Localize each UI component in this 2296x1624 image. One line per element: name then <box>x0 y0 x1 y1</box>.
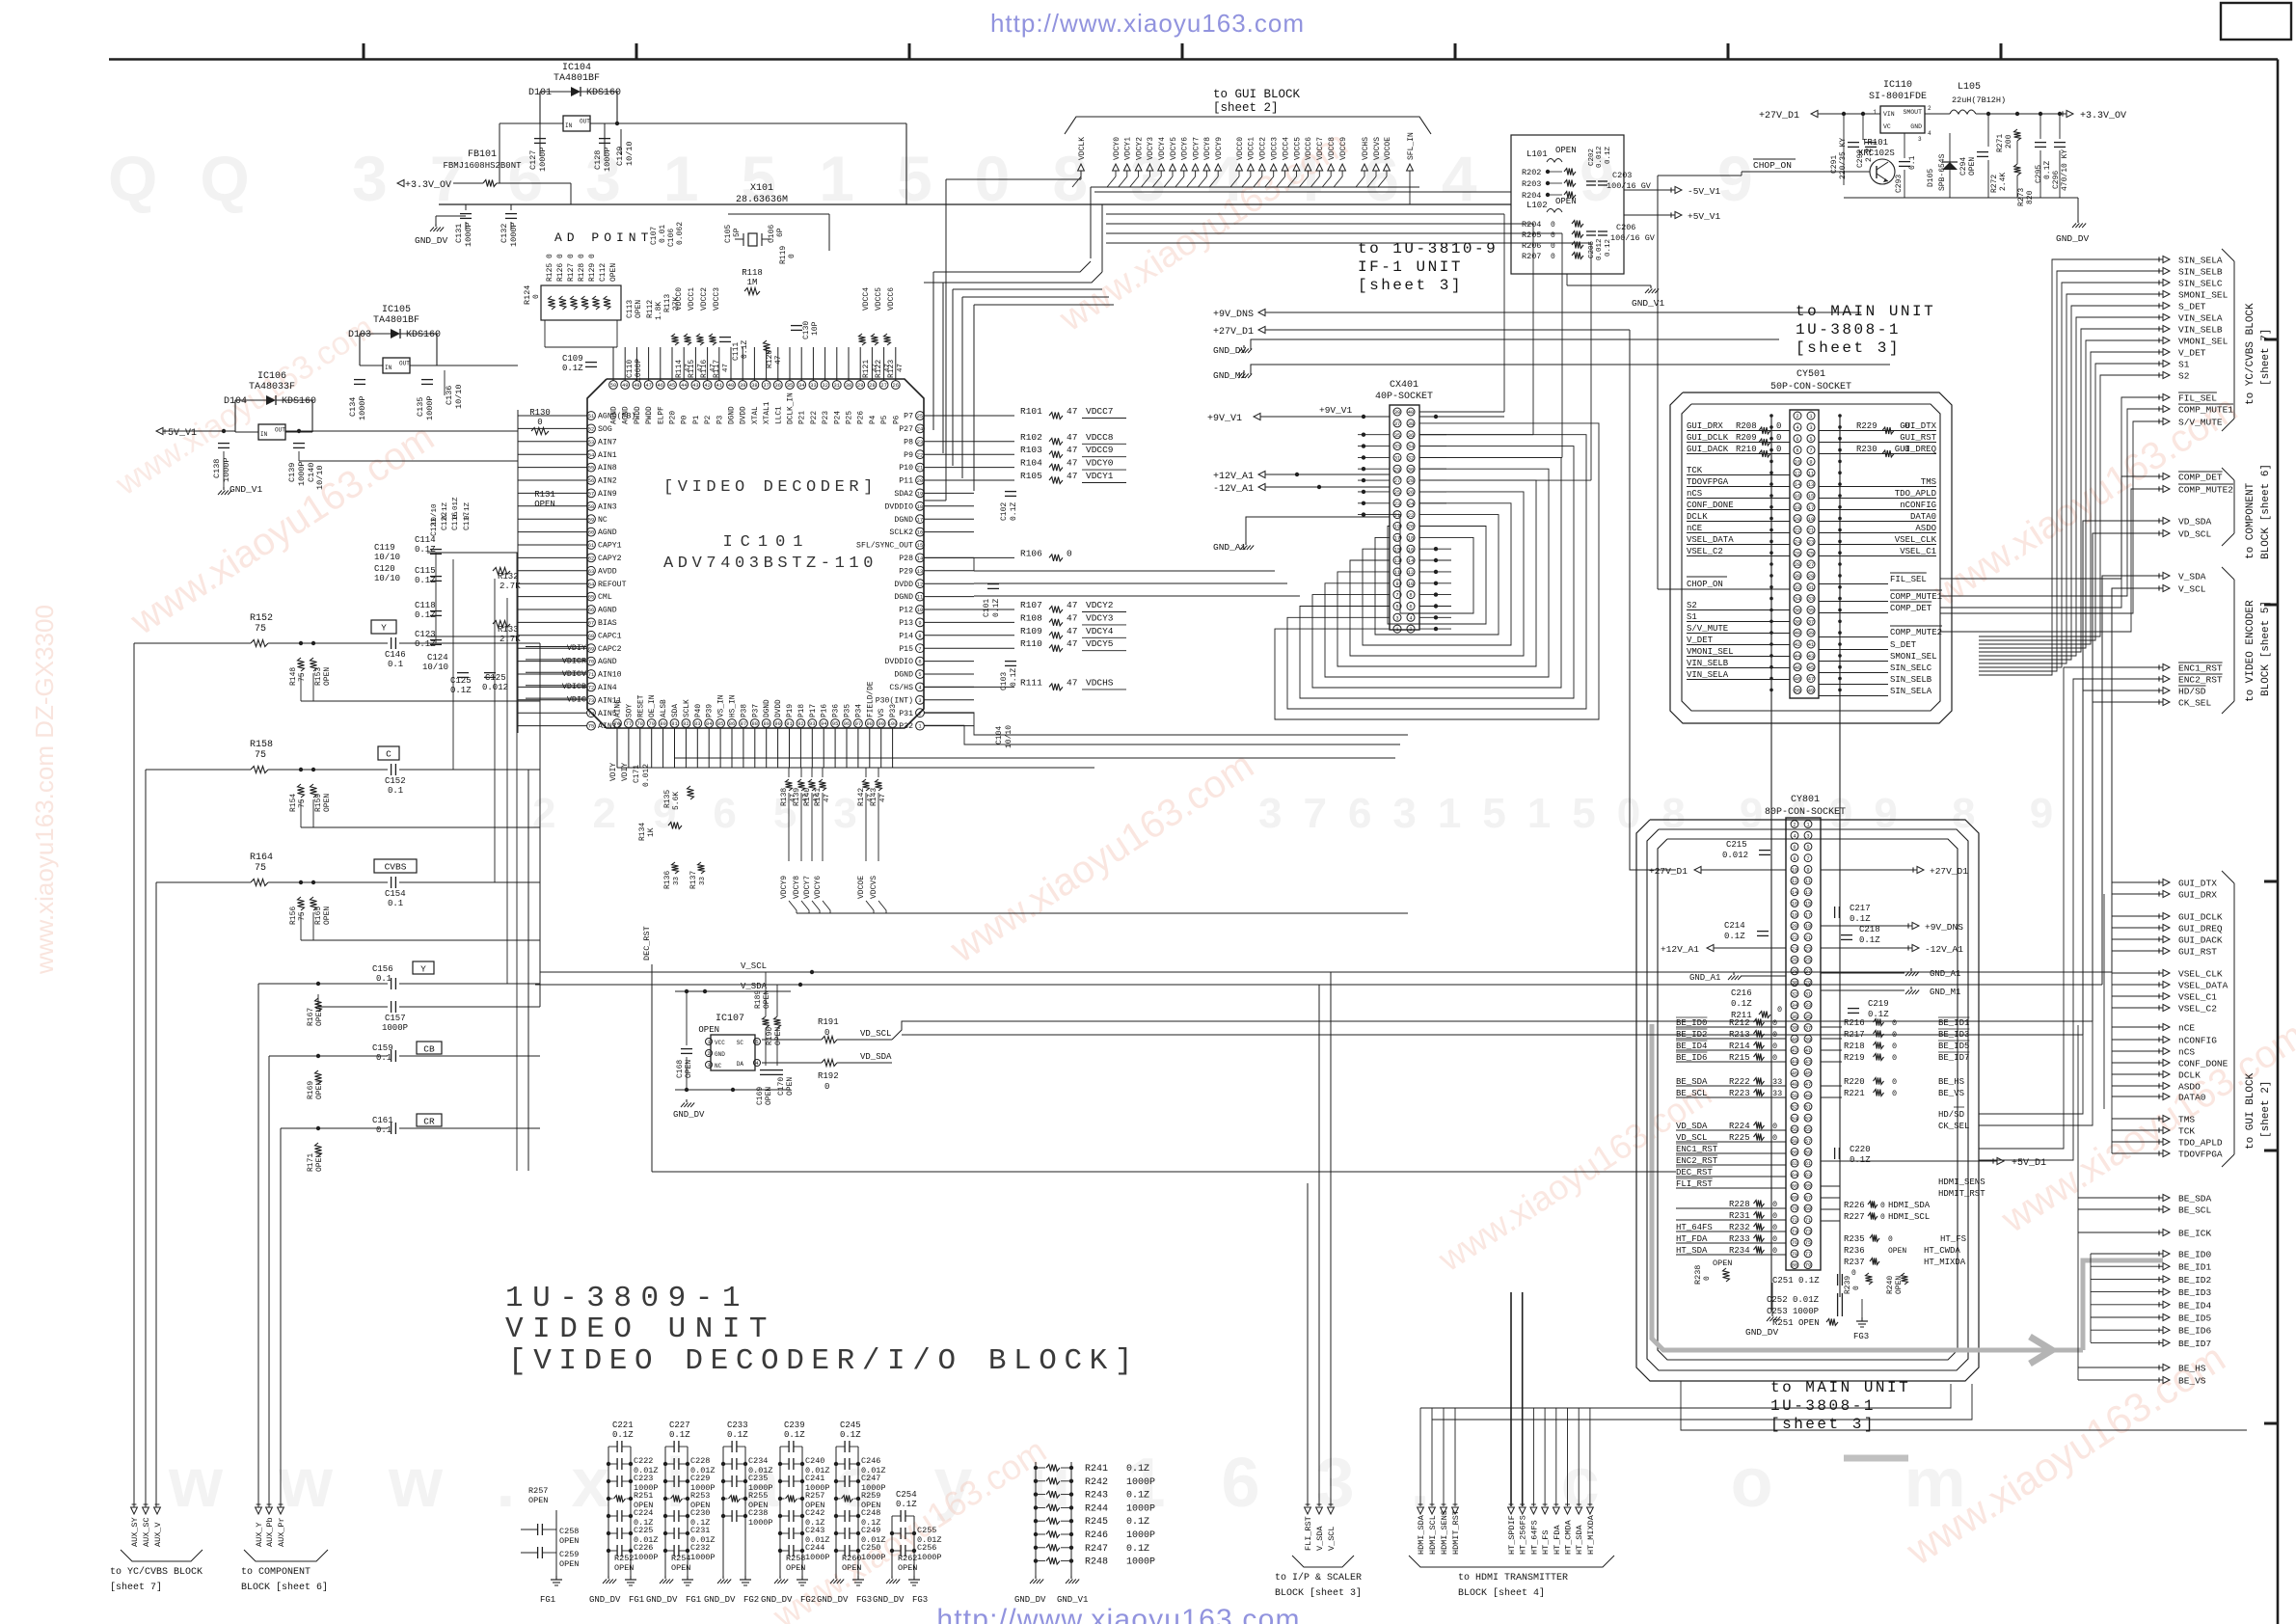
svg-text:R203: R203 <box>1522 179 1541 189</box>
svg-text:IC105: IC105 <box>382 305 411 315</box>
svg-text:SI-8001FDE: SI-8001FDE <box>1869 92 1927 102</box>
svg-text:0: 0 <box>1551 242 1555 251</box>
svg-text:VDCHS: VDCHS <box>1086 677 1114 688</box>
svg-text:66: 66 <box>1792 1184 1797 1190</box>
svg-text:C239: C239 <box>784 1421 805 1430</box>
svg-text:5: 5 <box>1395 605 1398 610</box>
svg-text:R129 0: R129 0 <box>588 254 597 282</box>
svg-text:19: 19 <box>1394 525 1400 530</box>
svg-text:AUX_V: AUX_V <box>153 1522 163 1547</box>
svg-text:P17: P17 <box>810 704 818 717</box>
svg-text:47: 47 <box>1805 1082 1811 1088</box>
svg-text:3: 3 <box>1918 136 1922 143</box>
svg-text:15: 15 <box>917 543 923 549</box>
IC101 bottom pin row pins 76..100 <box>613 719 622 728</box>
svg-text:C205: C205 <box>1588 240 1596 258</box>
svg-text:P18: P18 <box>798 704 806 717</box>
svg-text:1000P: 1000P <box>690 1553 716 1562</box>
svg-text:BE_HS: BE_HS <box>2178 1364 2206 1374</box>
svg-text:P7: P7 <box>904 413 913 421</box>
svg-text:R123: R123 <box>887 360 896 378</box>
svg-text:R117: R117 <box>713 360 721 378</box>
svg-text:GND_DV: GND_DV <box>817 1595 849 1605</box>
svg-text:0.01Z: 0.01Z <box>452 497 460 519</box>
svg-text:1000P: 1000P <box>1126 1477 1155 1488</box>
svg-text:14: 14 <box>1408 558 1414 564</box>
svg-text:VDCY0: VDCY0 <box>1113 137 1121 160</box>
power arrow -5V_V1 <box>1675 186 1682 193</box>
svg-text:V_SCL: V_SCL <box>2178 584 2206 595</box>
svg-text:R251 OPEN: R251 OPEN <box>1772 1318 1820 1328</box>
svg-text:C161: C161 <box>372 1116 393 1125</box>
svg-text:CVBS: CVBS <box>385 862 407 873</box>
svg-text:C107: C107 <box>650 227 659 245</box>
svg-text:0.1: 0.1 <box>376 1125 392 1135</box>
capacitor C101 0.1Z <box>987 583 999 585</box>
svg-text:FB101: FB101 <box>468 149 497 160</box>
svg-text:VD_SDA: VD_SDA <box>1676 1122 1708 1131</box>
svg-text:VDIY: VDIY <box>621 763 630 781</box>
svg-text:33: 33 <box>1805 1003 1811 1009</box>
svg-text:0.1Z: 0.1Z <box>1868 1010 1889 1019</box>
svg-text:90: 90 <box>774 721 780 727</box>
svg-text:R236: R236 <box>1844 1246 1865 1256</box>
svg-text:4: 4 <box>1409 615 1412 621</box>
svg-text:AIN4: AIN4 <box>598 684 617 692</box>
svg-text:AIN2: AIN2 <box>598 477 617 486</box>
svg-text:to MAIN UNIT: to MAIN UNIT <box>1770 1379 1910 1396</box>
svg-text:92: 92 <box>797 721 803 727</box>
svg-text:C241: C241 <box>805 1474 824 1483</box>
svg-text:R233: R233 <box>1729 1234 1750 1244</box>
ground GND_DV at CY801 <box>1771 1313 1773 1316</box>
svg-text:GND_DV: GND_DV <box>589 1595 621 1605</box>
svg-text:1000P: 1000P <box>358 395 367 420</box>
svg-text:53: 53 <box>1805 1116 1811 1122</box>
svg-text:VDICR: VDICR <box>562 656 586 665</box>
svg-text:HDMIT_RST: HDMIT_RST <box>1938 1189 1985 1199</box>
svg-text:25: 25 <box>1808 551 1814 556</box>
svg-text:CAPY2: CAPY2 <box>598 555 622 563</box>
svg-text:16: 16 <box>1408 547 1414 553</box>
svg-text:19: 19 <box>1805 924 1811 930</box>
svg-text:VSEL_C1: VSEL_C1 <box>1900 547 1936 556</box>
svg-text:25: 25 <box>917 414 923 420</box>
svg-text:V_DET: V_DET <box>2178 348 2206 359</box>
svg-text:39: 39 <box>1808 631 1814 636</box>
svg-text:VDCY5: VDCY5 <box>1086 638 1114 649</box>
svg-text:47: 47 <box>1067 626 1077 636</box>
svg-text:[sheet 3]: [sheet 3] <box>1358 277 1463 294</box>
ENC CK HD feed wires right of CY801 <box>1979 667 2159 1149</box>
svg-text:R164: R164 <box>250 853 273 863</box>
svg-text:COMP_MUTE2: COMP_MUTE2 <box>2178 485 2233 496</box>
svg-text:53: 53 <box>588 440 594 446</box>
svg-text:www.xiaoyu163.com DZ-GX3300: www.xiaoyu163.com DZ-GX3300 <box>30 605 59 975</box>
bottom bus under IC101 <box>617 767 1094 769</box>
wire +3.3V rail horizontal <box>439 203 1511 205</box>
svg-text:24: 24 <box>1795 540 1800 546</box>
svg-text:GND_DV: GND_DV <box>1213 345 1247 356</box>
svg-text:31: 31 <box>834 383 840 389</box>
svg-text:R119: R119 <box>779 246 788 264</box>
svg-text:P24: P24 <box>834 411 842 424</box>
svg-text:R140: R140 <box>803 788 812 806</box>
svg-text:DGND: DGND <box>894 516 913 525</box>
svg-text:C250: C250 <box>861 1543 880 1553</box>
svg-text:BE_ID5: BE_ID5 <box>1938 1042 1969 1051</box>
svg-text:5: 5 <box>755 1040 758 1045</box>
svg-text:VIN_SELA: VIN_SELA <box>1687 670 1729 680</box>
svg-text:BE_ID3: BE_ID3 <box>2178 1287 2212 1298</box>
svg-text:C111: C111 <box>732 342 741 361</box>
svg-text:75: 75 <box>1805 1240 1811 1246</box>
svg-text:P25: P25 <box>847 411 854 424</box>
V_SCL V_SDA to right edge <box>2112 588 2159 972</box>
svg-text:R169: R169 <box>307 1081 315 1099</box>
svg-text:SIN_SELA: SIN_SELA <box>1890 687 1932 696</box>
svg-text:0.1Z: 0.1Z <box>1126 1517 1149 1528</box>
svg-text:R115: R115 <box>688 360 696 378</box>
svg-text:R114: R114 <box>675 360 684 378</box>
funnel to COMPONENT <box>244 1550 328 1561</box>
svg-text:0.01: 0.01 <box>659 225 667 243</box>
svg-text:2.4K: 2.4K <box>1999 173 2008 191</box>
bottom group FLI_RST V_SDA V_SCL <box>1305 1507 1311 1514</box>
svg-text:0.1Z: 0.1Z <box>1126 1464 1149 1475</box>
svg-text:0.1Z: 0.1Z <box>896 1500 917 1509</box>
svg-text:1000P: 1000P <box>1126 1557 1155 1568</box>
svg-text:470/10 KY: 470/10 KY <box>2061 149 2069 191</box>
svg-text:BE_ID1: BE_ID1 <box>2178 1262 2212 1273</box>
svg-text:49: 49 <box>1805 1094 1811 1099</box>
svg-text:V_SDA: V_SDA <box>741 982 768 991</box>
svg-text:C152: C152 <box>385 776 406 786</box>
svg-text:BE_ID7: BE_ID7 <box>2178 1339 2211 1349</box>
svg-text:R131: R131 <box>534 490 555 500</box>
svg-text:DGND: DGND <box>894 671 913 680</box>
capacitor C131 1000P <box>460 213 472 215</box>
svg-text:29: 29 <box>857 383 863 389</box>
svg-text:44: 44 <box>681 383 687 389</box>
svg-text:[sheet 7]: [sheet 7] <box>2260 329 2272 386</box>
svg-text:VD_SCL: VD_SCL <box>1676 1133 1707 1143</box>
svg-text:60: 60 <box>1792 1150 1797 1156</box>
svg-text:ENC1_RST: ENC1_RST <box>2178 663 2223 674</box>
svg-text:C170: C170 <box>777 1077 786 1096</box>
svg-text:47: 47 <box>774 355 783 365</box>
svg-text:R221: R221 <box>1844 1089 1865 1098</box>
svg-text:R111: R111 <box>1020 677 1042 688</box>
svg-text:R232: R232 <box>1729 1223 1750 1232</box>
svg-text:23: 23 <box>1394 501 1400 507</box>
svg-text:98: 98 <box>867 721 873 727</box>
svg-text:C258: C258 <box>559 1527 579 1536</box>
svg-text:VDCY5: VDCY5 <box>1170 137 1178 160</box>
svg-text:10: 10 <box>917 608 923 613</box>
svg-text:4: 4 <box>918 686 921 691</box>
svg-text:R167: R167 <box>307 1008 315 1026</box>
svg-text:20: 20 <box>917 478 923 484</box>
svg-text:R154: R154 <box>289 794 298 812</box>
svg-text:BE_ID1: BE_ID1 <box>1938 1018 1969 1028</box>
wire DEC_RST down and right to CY801 <box>651 964 653 1172</box>
svg-text:24: 24 <box>1792 947 1797 953</box>
long rail y1204 from left <box>540 1160 1821 1162</box>
svg-text:P15: P15 <box>899 645 913 654</box>
svg-text:C129: C129 <box>615 147 625 166</box>
right group COMP_DET COMP_MUTE2 <box>2163 473 2170 479</box>
svg-text:XTAL1: XTAL1 <box>764 401 771 424</box>
svg-text:0: 0 <box>1772 1133 1777 1143</box>
svg-text:32: 32 <box>1792 991 1797 997</box>
svg-text:IC110: IC110 <box>1883 80 1912 91</box>
svg-text:R219: R219 <box>1844 1053 1865 1063</box>
ground GND_V1 under block <box>1650 285 1652 288</box>
svg-text:C243: C243 <box>805 1526 824 1535</box>
power arrow +27V_D1 <box>1258 326 1265 333</box>
svg-text:5: 5 <box>918 672 921 678</box>
svg-text:30: 30 <box>1792 981 1797 987</box>
svg-text:nCE: nCE <box>1687 524 1702 533</box>
svg-text:VDCC5: VDCC5 <box>1293 137 1302 160</box>
svg-text:1000P: 1000P <box>748 1518 773 1528</box>
svg-text:C240: C240 <box>805 1456 824 1466</box>
svg-text:50: 50 <box>1795 689 1800 694</box>
svg-text:SIN_SELC: SIN_SELC <box>1890 663 1932 673</box>
svg-text:VD_SCL: VD_SCL <box>2178 529 2212 540</box>
svg-text:5: 5 <box>1809 437 1812 443</box>
svg-text:FBMJ1608HS2B0NT: FBMJ1608HS2B0NT <box>443 161 522 171</box>
svg-text:VS_IN: VS_IN <box>718 694 726 717</box>
svg-text:TCK: TCK <box>1687 466 1703 475</box>
svg-text:CHOP_ON: CHOP_ON <box>1753 160 1792 171</box>
svg-text:18: 18 <box>917 504 923 510</box>
svg-text:80: 80 <box>1792 1263 1797 1269</box>
svg-text:80: 80 <box>660 721 665 727</box>
svg-text:VDCC8: VDCC8 <box>1328 137 1337 160</box>
svg-text:5.6K: 5.6K <box>672 792 681 810</box>
CY801 socket body <box>1786 818 1821 1270</box>
svg-text:79: 79 <box>648 721 654 727</box>
svg-text:R235: R235 <box>1844 1234 1865 1244</box>
svg-text:to GUI BLOCK: to GUI BLOCK <box>2245 1072 2256 1150</box>
svg-text:8: 8 <box>1796 448 1798 454</box>
extra bus wires IC lower-right <box>924 713 1408 735</box>
svg-text:C255: C255 <box>917 1526 936 1535</box>
svg-text:6: 6 <box>1793 845 1796 851</box>
left long vertical feeders into IC <box>539 643 541 1007</box>
svg-text:DEC_RST: DEC_RST <box>1676 1168 1713 1177</box>
svg-text:TDOVFPGA: TDOVFPGA <box>1687 477 1729 487</box>
svg-text:HDMI_SCL: HDMI_SCL <box>1888 1212 1930 1222</box>
svg-text:VDCC9: VDCC9 <box>1339 137 1348 160</box>
svg-text:L105: L105 <box>1958 82 1981 93</box>
svg-text:39: 39 <box>740 383 745 389</box>
svg-text:0: 0 <box>824 1028 829 1038</box>
svg-text:91: 91 <box>786 721 792 727</box>
svg-text:P13: P13 <box>899 619 913 628</box>
svg-text:OUT: OUT <box>275 427 285 434</box>
svg-text:IN: IN <box>260 431 268 438</box>
svg-text:43: 43 <box>692 383 698 389</box>
svg-text:26: 26 <box>1408 490 1414 496</box>
svg-text:C112: C112 <box>599 263 608 282</box>
svg-text:46: 46 <box>1792 1070 1797 1076</box>
svg-text:1: 1 <box>918 724 921 730</box>
svg-text:R271: R271 <box>1996 134 2005 152</box>
svg-text:0: 0 <box>1892 1042 1897 1051</box>
svg-text:SIN_SELB: SIN_SELB <box>2178 267 2223 278</box>
svg-text:P9: P9 <box>904 451 913 460</box>
svg-text:AGND: AGND <box>598 607 617 615</box>
svg-text:29: 29 <box>1808 574 1814 580</box>
svg-text:C244: C244 <box>805 1543 824 1553</box>
power arrow +9V_DNS right <box>1912 922 1919 929</box>
svg-text:HT_64FS: HT_64FS <box>1676 1223 1713 1232</box>
svg-text:89: 89 <box>763 721 769 727</box>
svg-text:R156: R156 <box>289 907 298 925</box>
svg-text:VIN_SELA: VIN_SELA <box>2178 313 2223 324</box>
CY801 highlight gray trace <box>1652 1024 2083 1350</box>
svg-text:38: 38 <box>751 383 757 389</box>
svg-text:R171: R171 <box>307 1153 315 1172</box>
capacitor C135 1000P <box>421 379 433 381</box>
svg-text:C230: C230 <box>690 1508 710 1518</box>
svg-text:R153: R153 <box>314 667 323 686</box>
svg-text:to YC/CVBS BLOCK: to YC/CVBS BLOCK <box>110 1566 203 1578</box>
svg-text:VDCVS: VDCVS <box>1373 137 1382 160</box>
svg-text:AGND(FB): AGND(FB) <box>598 412 635 421</box>
svg-text:GUI_RST: GUI_RST <box>2178 947 2217 958</box>
svg-text:OPEN: OPEN <box>315 1081 324 1099</box>
svg-text:77: 77 <box>626 721 632 727</box>
svg-text:IC104: IC104 <box>562 63 591 73</box>
svg-text:C168: C168 <box>676 1060 685 1078</box>
svg-text:VDCHS: VDCHS <box>1362 137 1370 160</box>
svg-text:C214: C214 <box>1724 921 1745 931</box>
svg-text:22: 22 <box>1795 528 1800 534</box>
svg-text:P22: P22 <box>811 411 819 424</box>
power arrow +9V_V1 to CX401 <box>1254 413 1260 420</box>
svg-text:69: 69 <box>588 646 594 652</box>
svg-text:DVDD: DVDD <box>775 699 783 717</box>
svg-text:93: 93 <box>809 721 815 727</box>
wire IC104 output rail <box>590 122 906 124</box>
svg-text:14: 14 <box>917 556 923 562</box>
svg-text:R104: R104 <box>1020 458 1042 469</box>
svg-text:47: 47 <box>1067 471 1077 481</box>
svg-text:R230: R230 <box>1856 445 1877 454</box>
svg-text:1: 1 <box>1809 414 1812 420</box>
svg-text:0: 0 <box>532 294 541 299</box>
svg-text:24: 24 <box>917 427 923 433</box>
svg-text:17: 17 <box>1805 912 1811 918</box>
svg-text:BE_SCL: BE_SCL <box>2178 1205 2212 1216</box>
svg-text:OPEN: OPEN <box>315 1153 324 1172</box>
svg-text:R137: R137 <box>689 871 698 889</box>
svg-text:37: 37 <box>1805 1026 1811 1032</box>
svg-text:1: 1 <box>1395 627 1398 633</box>
svg-text:35: 35 <box>1394 433 1400 439</box>
svg-text:HT_SDA: HT_SDA <box>1676 1246 1708 1256</box>
svg-text:5P: 5P <box>733 228 742 237</box>
svg-text:FG3: FG3 <box>1853 1332 1869 1341</box>
svg-text:29: 29 <box>1805 981 1811 987</box>
svg-text:C113: C113 <box>626 300 635 318</box>
svg-text:51: 51 <box>588 414 594 420</box>
svg-text:SIN_SELA: SIN_SELA <box>2178 256 2223 266</box>
svg-text:58: 58 <box>588 504 594 510</box>
left bus vertical wire <box>517 410 519 733</box>
svg-text:47: 47 <box>897 364 905 372</box>
svg-text:32: 32 <box>1408 456 1414 462</box>
svg-text:18: 18 <box>1408 536 1414 542</box>
svg-text:20: 20 <box>1795 517 1800 523</box>
svg-text:C293: C293 <box>1895 175 1904 193</box>
svg-text:P19: P19 <box>787 704 795 717</box>
svg-text:VDIY: VDIY <box>567 643 586 653</box>
svg-text:R189: R189 <box>754 990 763 1009</box>
svg-text:P36: P36 <box>833 704 841 717</box>
svg-text:VDCC1: VDCC1 <box>688 287 696 311</box>
svg-text:OPEN: OPEN <box>671 1563 690 1573</box>
svg-text:CAPC2: CAPC2 <box>598 645 622 654</box>
svg-text:R225: R225 <box>1729 1133 1750 1143</box>
svg-text:R253: R253 <box>690 1491 710 1501</box>
CY501 socket body <box>1790 410 1819 698</box>
svg-text:0.1Z: 0.1Z <box>442 501 449 520</box>
svg-text:FG1: FG1 <box>629 1595 644 1605</box>
svg-text:35: 35 <box>1805 1015 1811 1020</box>
svg-text:11: 11 <box>917 595 923 601</box>
svg-text:C227: C227 <box>669 1421 690 1430</box>
extra bus wires IC right to maze <box>974 570 1275 572</box>
svg-text:36: 36 <box>1792 1015 1797 1020</box>
svg-text:Y: Y <box>420 964 426 975</box>
svg-text:AIN8: AIN8 <box>598 464 617 473</box>
svg-text:R227: R227 <box>1844 1212 1865 1222</box>
svg-text:P11: P11 <box>899 477 913 486</box>
svg-text:VDCY2: VDCY2 <box>1086 600 1114 610</box>
svg-text:VDCY8: VDCY8 <box>1203 137 1212 160</box>
svg-text:1000P: 1000P <box>1126 1530 1155 1541</box>
svg-text:BE_ICK: BE_ICK <box>2178 1229 2212 1239</box>
svg-text:C248: C248 <box>861 1508 880 1518</box>
svg-text:KDS160: KDS160 <box>406 330 441 340</box>
svg-text:C146: C146 <box>385 650 406 660</box>
ground GND_DV top left <box>435 224 437 227</box>
svg-text:P34: P34 <box>855 704 863 717</box>
svg-text:FIELD/DE: FIELD/DE <box>867 681 875 717</box>
svg-text:29: 29 <box>1394 467 1400 473</box>
svg-text:AIN9: AIN9 <box>598 490 617 499</box>
svg-text:9: 9 <box>1395 582 1398 587</box>
capacitor C168 OPEN <box>681 1048 692 1050</box>
svg-text:10/10: 10/10 <box>422 663 448 672</box>
svg-text:0: 0 <box>1776 433 1781 443</box>
svg-text:FG2: FG2 <box>743 1595 759 1605</box>
svg-text:OPEN: OPEN <box>774 1027 783 1045</box>
svg-text:13: 13 <box>1808 482 1814 488</box>
svg-text:SMONI_SEL: SMONI_SEL <box>2178 290 2228 301</box>
svg-text:nCS: nCS <box>2178 1047 2195 1058</box>
svg-text:R259: R259 <box>861 1491 880 1501</box>
svg-text:8: 8 <box>918 634 921 639</box>
svg-text:BLOCK [sheet 3]: BLOCK [sheet 3] <box>1275 1587 1362 1599</box>
svg-text:VDCC3: VDCC3 <box>713 287 721 311</box>
svg-text:10P: 10P <box>811 321 820 336</box>
